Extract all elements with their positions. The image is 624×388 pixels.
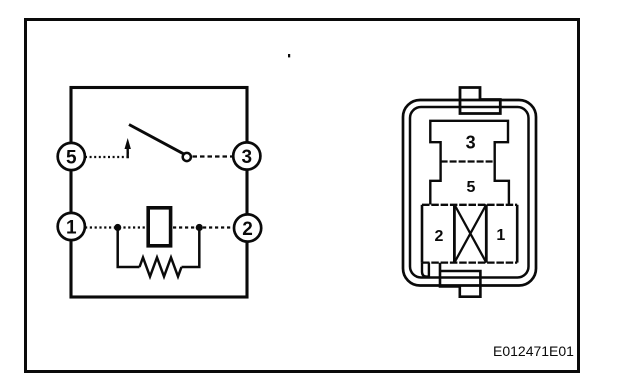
- junction dot left: [114, 224, 121, 231]
- relay coil: [148, 208, 170, 246]
- switch movable-contact arrow: [125, 138, 131, 158]
- wire: dashed from contact to terminal 3: [193, 155, 234, 157]
- svg-text:2: 2: [242, 219, 253, 240]
- connector housing outer outline: [403, 100, 536, 286]
- svg-text:3: 3: [466, 133, 476, 153]
- wire: left leg down to resistor: [118, 229, 140, 267]
- cavity 3 outline: [430, 121, 508, 162]
- svg-text:E012471E01: E012471E01: [493, 343, 574, 359]
- pin row divider left: [453, 205, 456, 263]
- terminal 2: [234, 214, 261, 241]
- junction dot right: [196, 224, 203, 231]
- svg-text:5: 5: [467, 179, 476, 196]
- hook below pin-2 cavity corner: [422, 263, 429, 277]
- terminal 3: [233, 142, 260, 169]
- connector top locking tab: [460, 88, 500, 114]
- svg-text:1: 1: [496, 227, 505, 244]
- resistor (zigzag): [140, 258, 182, 277]
- wire: dotted from terminal 5 to switch arm: [85, 147, 128, 157]
- connector bottom locking tab: [440, 263, 480, 297]
- pin label 1: [496, 227, 505, 244]
- svg-text:2: 2: [435, 228, 444, 245]
- pin label 3: [466, 133, 476, 153]
- blocked cavity X mark: [454, 205, 486, 263]
- switch fixed contact (open circle): [183, 153, 191, 161]
- wire: dotted from terminal 1 to coil: [85, 226, 146, 228]
- wire: right leg down to resistor: [182, 229, 200, 267]
- switch blade (relay contact): [129, 125, 184, 154]
- pin row divider right: [485, 205, 488, 263]
- pin row outline: [422, 205, 517, 263]
- figure code E012471E01: [493, 343, 574, 359]
- relay outline box: [71, 88, 247, 298]
- cavity 5 outline: [430, 162, 509, 205]
- svg-text:3: 3: [242, 147, 253, 168]
- svg-text:1: 1: [66, 217, 77, 238]
- terminal 5: [58, 143, 85, 170]
- pin label 5: [467, 179, 476, 196]
- svg-text:5: 5: [66, 147, 77, 168]
- connector housing inner outline: [410, 107, 529, 278]
- divider between cavity 3 and 5: [441, 160, 495, 162]
- stray dot: [288, 54, 290, 57]
- wire: dashed from coil to terminal 2: [173, 226, 234, 228]
- terminal 1: [58, 213, 85, 240]
- pin label 2: [435, 228, 444, 245]
